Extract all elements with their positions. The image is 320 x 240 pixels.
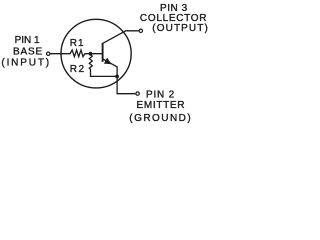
svg-text:R1: R1 [70, 38, 84, 49]
svg-text:(INPUT): (INPUT) [1, 57, 49, 68]
svg-text:EMITTER: EMITTER [137, 100, 185, 111]
svg-text:BASE: BASE [13, 46, 43, 57]
svg-text:PIN 2: PIN 2 [146, 90, 175, 101]
svg-text:(OUTPUT): (OUTPUT) [152, 23, 208, 34]
svg-text:PIN 1: PIN 1 [15, 35, 40, 46]
